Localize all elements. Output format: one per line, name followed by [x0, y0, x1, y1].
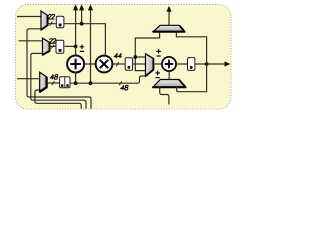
bus slash 22b [51, 45, 54, 49]
wire mux3 top stub [135, 56, 146, 58]
wire M2 right leg [177, 87, 207, 92]
panel background [16, 5, 232, 110]
arrow up 3 [88, 4, 93, 10]
junction dot B2 tap [74, 45, 78, 49]
wire arrow tap x81.6 [81, 8, 83, 24]
arrow up 1 [73, 4, 78, 10]
wire T1 to B1 [48, 23, 56, 25]
wire A1 bottom [75, 72, 77, 83]
junction dot mux3 top [133, 55, 137, 59]
wire T3 to D blocks [47, 82, 60, 84]
bus slash 22a [50, 22, 53, 26]
label 22a [48, 14, 52, 19]
combiner T3 [39, 72, 46, 92]
wire input 1 [17, 16, 41, 18]
bus slash 44 [116, 62, 119, 66]
junction dot output tap [205, 62, 209, 66]
label 44 [114, 53, 118, 58]
block B1 [56, 16, 64, 27]
mux M1 top [153, 25, 186, 31]
wire B1 to multiplier top [64, 24, 105, 56]
combiner T2 [42, 38, 49, 55]
wire B3 to mux3 [133, 63, 146, 65]
wire return bus 2 [31, 53, 86, 108]
wire A2 to B4 [176, 63, 187, 65]
wire bottom path [70, 76, 146, 83]
wire X1 to B3 [112, 63, 125, 65]
wire B2 to adder1 vertical [65, 45, 76, 47]
label 48b [121, 85, 125, 90]
junction dot bottom long vertical [89, 81, 93, 85]
bus slash 48a [52, 81, 55, 85]
wire mux3 to A2 [154, 63, 162, 65]
wire mux1 left leg down [135, 31, 159, 70]
adder A1 [67, 56, 84, 73]
wire return bus 1 [27, 29, 91, 109]
block D1 and D2 double delay [60, 77, 70, 88]
arrow right output [225, 61, 231, 66]
multiplier X1 [96, 56, 113, 73]
wire B4 to output arrow [195, 63, 226, 65]
wire M2 output up to A2 [168, 71, 170, 79]
label plusminus M2 [155, 71, 160, 78]
wire T2 to B2 [50, 45, 56, 47]
label plusminus A2 [156, 49, 161, 56]
arrow up 2 [79, 4, 84, 10]
mux M2 bottom [152, 80, 186, 88]
label 22b [49, 39, 53, 44]
wire M1 output up [168, 11, 170, 25]
label 48a [50, 75, 54, 80]
adder A2 [162, 57, 176, 71]
block B3 [125, 58, 132, 70]
wire M2 left leg [160, 87, 169, 105]
wire return bus 3 [35, 90, 81, 109]
wire input 3 [17, 78, 40, 80]
bus slash 48b [119, 81, 122, 85]
wire M1 right leg [176, 31, 206, 91]
junction dot B1 tap [80, 22, 84, 26]
mux M3 [145, 54, 153, 77]
junction dot bottom A1 [74, 81, 78, 85]
wire adder1 vertical with top arrow [75, 8, 77, 56]
wire long vertical x90.5 [90, 8, 92, 83]
arrow up M1 [166, 6, 171, 12]
block B2 [56, 40, 64, 53]
wire input 2 [19, 40, 43, 42]
wire A1 to X1 [84, 63, 96, 65]
label plusminus adder1 [80, 45, 85, 52]
block B4 [188, 58, 195, 71]
combiner T1 [41, 11, 48, 30]
